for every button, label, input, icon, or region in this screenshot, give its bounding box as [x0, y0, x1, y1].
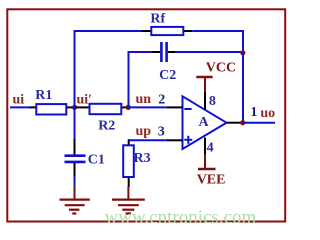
svg-text:1: 1	[250, 105, 257, 120]
svg-text:Rf: Rf	[150, 11, 165, 26]
svg-text:ui: ui	[13, 93, 25, 108]
op-amp pin 2	[158, 92, 182, 107]
resistor R2	[75, 104, 129, 134]
node A junction dot ui'	[72, 105, 77, 110]
svg-text:2: 2	[158, 92, 165, 107]
svg-text:8: 8	[209, 94, 216, 109]
op-amp pin 8	[205, 92, 216, 111]
wire right vertical lower to output	[242, 53, 244, 123]
wire right vertical upper	[242, 30, 244, 53]
wire vertical un to C2 line	[128, 52, 130, 107]
wire top feedback left segment	[74, 30, 143, 32]
svg-text:VCC: VCC	[206, 60, 236, 75]
node B junction dot un	[126, 105, 131, 110]
wire un to op-amp pin 2	[128, 106, 167, 108]
VCC power symbol	[196, 60, 236, 92]
svg-text:R3: R3	[134, 151, 151, 166]
capacitor C2	[152, 42, 176, 83]
ground under C1	[60, 187, 90, 214]
op-amp pin 3	[158, 124, 183, 140]
wire up to op-amp pin 3	[129, 139, 168, 141]
svg-text:4: 4	[207, 141, 214, 156]
resistor R3	[123, 139, 150, 187]
ground under R3	[112, 187, 145, 214]
svg-text:VEE: VEE	[197, 172, 226, 187]
wire output uo	[243, 122, 275, 124]
svg-text:C2: C2	[159, 68, 176, 83]
op-amp output pin 1	[227, 105, 258, 123]
svg-text:A: A	[199, 115, 210, 130]
resistor Rf	[142, 11, 192, 35]
wire C2 line right segment	[176, 51, 243, 53]
svg-text:C1: C1	[88, 152, 105, 167]
wire vertical ui' to top feedback line	[74, 31, 76, 107]
svg-text:un: un	[136, 92, 152, 107]
svg-text:R2: R2	[98, 118, 115, 133]
VEE power symbol	[197, 154, 226, 187]
svg-text:uo: uo	[260, 106, 275, 121]
svg-text:R1: R1	[35, 88, 52, 103]
node C junction dot feedback	[240, 50, 245, 55]
wire top feedback right segment	[192, 30, 244, 32]
capacitor C1	[65, 107, 105, 176]
op-amp pin 4	[205, 138, 214, 156]
svg-text:www.cntronics.com: www.cntronics.com	[105, 207, 257, 228]
wire input ui to R1	[10, 106, 30, 108]
wire C2 line left segment	[128, 51, 153, 53]
svg-text:3: 3	[158, 124, 165, 139]
svg-text:up: up	[136, 124, 152, 139]
op-amp A	[183, 96, 227, 149]
resistor R1	[30, 88, 75, 115]
wire C1 to ground	[74, 177, 76, 188]
node D junction dot output	[240, 120, 245, 125]
